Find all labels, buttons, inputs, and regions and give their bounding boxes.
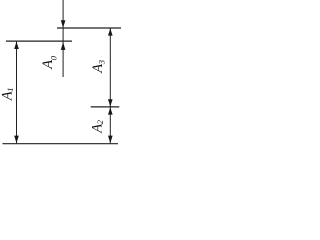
wire: bottom horizontal reference line — [3, 143, 119, 145]
arrowhead down at bottom line (A2 bottom) — [108, 136, 113, 144]
wire: A3/A2 dimension vertical shaft — [109, 28, 111, 143]
arrowhead down at lower-right line (A3 bottom) — [108, 99, 113, 106]
arrowhead down at bottom line (A1 bottom) — [14, 136, 19, 144]
wire: A0 dimension vertical shaft — [62, 0, 64, 77]
arrowhead up at middle line (A1 top) — [14, 42, 19, 49]
wire: upper horizontal reference line (right) — [57, 27, 121, 29]
arrowhead up at lower-right line (A2 top) — [108, 107, 113, 114]
wire: middle horizontal reference line (left) — [6, 40, 72, 42]
wire: lower-right horizontal reference line — [91, 106, 120, 108]
arrowhead up at top line (A3 top) — [108, 28, 113, 35]
arrowhead down at top line (A0 upper) — [61, 20, 66, 28]
wire: A1 dimension vertical shaft — [16, 42, 18, 144]
arrowhead up at middle line (A0 lower) — [61, 42, 66, 50]
